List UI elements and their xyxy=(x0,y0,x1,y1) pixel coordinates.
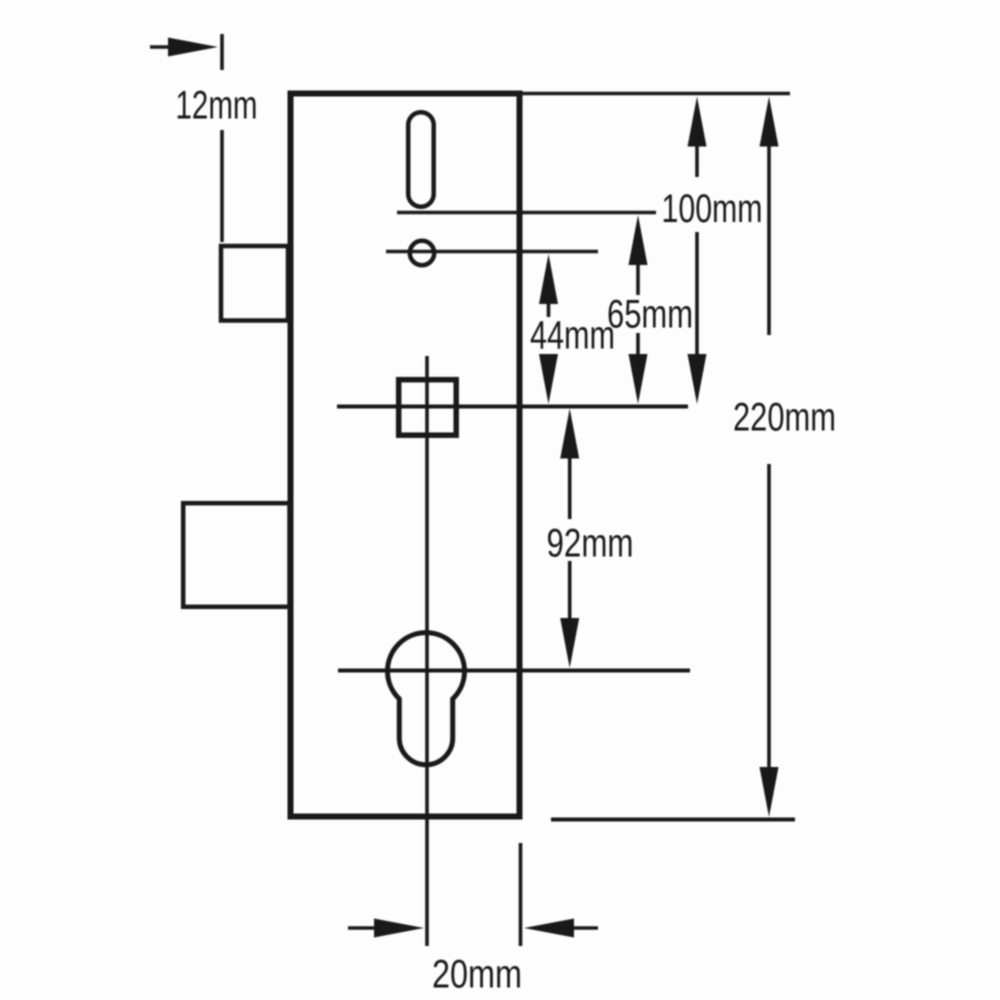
svg-text:220mm: 220mm xyxy=(733,396,836,440)
svg-text:100mm: 100mm xyxy=(662,187,763,231)
svg-text:44mm: 44mm xyxy=(530,314,615,358)
svg-text:92mm: 92mm xyxy=(547,522,634,566)
svg-text:65mm: 65mm xyxy=(607,293,693,337)
svg-text:12mm: 12mm xyxy=(176,84,258,128)
svg-text:20mm: 20mm xyxy=(432,953,522,997)
